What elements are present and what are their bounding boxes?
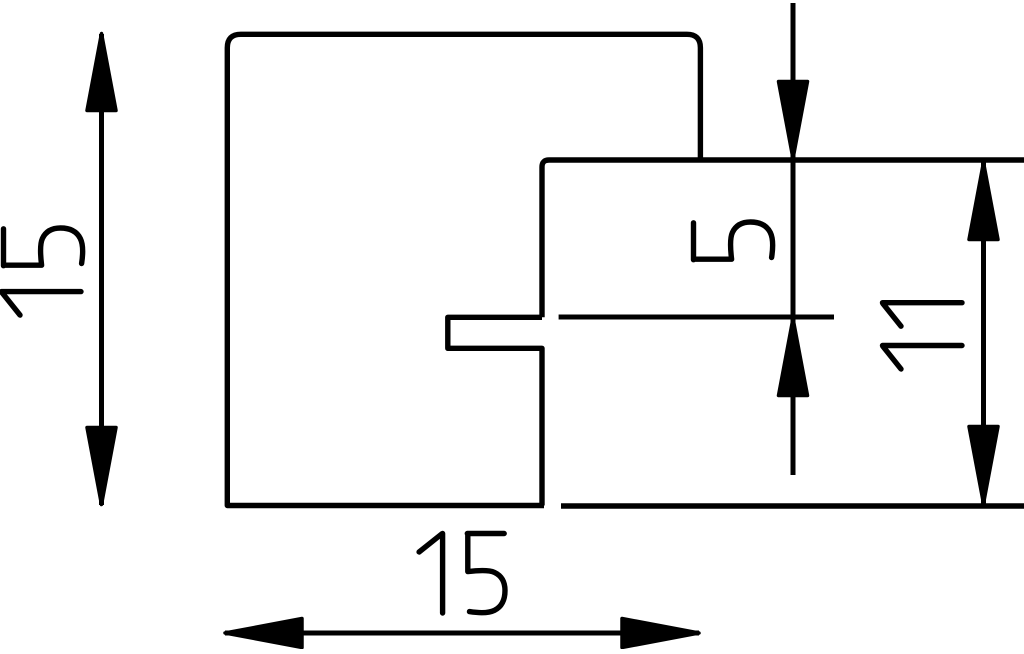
profile outline: right block bottom edge (runs off right edge) (561, 503, 1024, 508)
arrowhead right (bottom 15) (622, 619, 699, 648)
dimension line 15 (bottom, horizontal) (225, 631, 699, 636)
label 11 (rotated) (883, 346, 963, 370)
profile outline: notch / groove on right side of left block (448, 317, 542, 505)
label 15 (bottom) (419, 534, 443, 614)
arrowhead down (left 15 bottom) (87, 428, 116, 505)
arrowhead up (5 dim, below line) (779, 319, 808, 396)
arrowhead up (11 top) (969, 163, 998, 240)
arrowhead up (left 15 top) (87, 34, 116, 111)
profile outline: right block top edge (runs off right edge) (542, 160, 1024, 317)
label 5 (rotated) (694, 222, 773, 260)
arrowhead down (11 bottom) (969, 427, 998, 504)
dimension line 5 (vertical through top step) (791, 3, 796, 475)
reference line for 5 dimension (notch top level) (559, 315, 834, 320)
arrowhead down (5 dim, above line) (779, 82, 808, 159)
dimension line 11 (right, vertical) (981, 161, 986, 505)
label 15 (left, rotated) (2, 292, 82, 316)
arrowhead left (bottom 15) (225, 619, 302, 648)
dimension line 15 (left, vertical) (99, 34, 104, 505)
profile outline: left block (15x15) top rounded corners (227, 34, 700, 505)
